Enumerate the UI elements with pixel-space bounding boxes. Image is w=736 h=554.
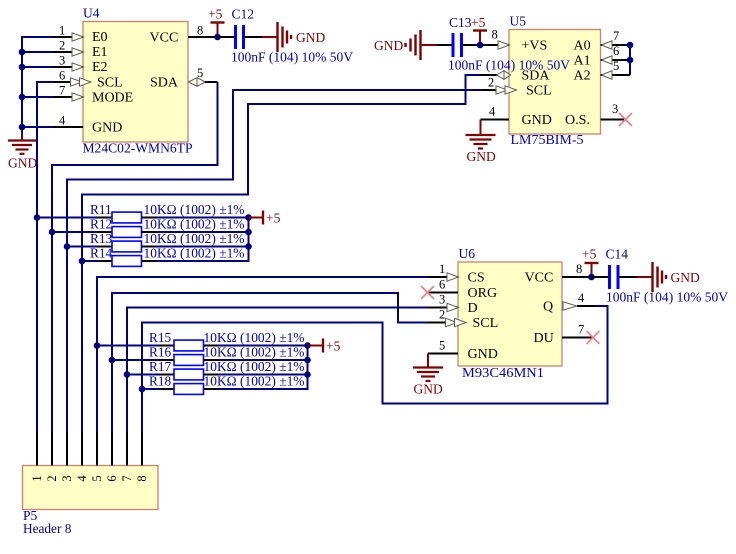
svg-text:3: 3 bbox=[439, 293, 445, 307]
U4 pin 4 GND bbox=[52, 114, 83, 128]
P5 pin 3 bbox=[60, 432, 74, 482]
wire E0 net horizontal bbox=[21, 36, 53, 38]
svg-text:7: 7 bbox=[59, 84, 65, 98]
resistor R11 bbox=[37, 202, 249, 223]
U6 pin 2 SCL bbox=[428, 308, 466, 327]
wire U5 SDA net: pin to bus x=82 bbox=[82, 75, 482, 195]
svg-text:MODE: MODE bbox=[92, 91, 133, 106]
resistor R18 bbox=[142, 374, 308, 395]
svg-text:10KΩ (1002) ±1%: 10KΩ (1002) ±1% bbox=[204, 345, 305, 360]
junction dot x=22 y=97 bbox=[19, 94, 26, 101]
junction dot R12 tie bbox=[245, 229, 252, 236]
svg-text:5: 5 bbox=[439, 339, 445, 353]
svg-text:GND: GND bbox=[374, 38, 403, 53]
power +5 at U5 +VS bbox=[471, 15, 487, 45]
svg-text:8: 8 bbox=[135, 475, 149, 481]
svg-text:GND: GND bbox=[468, 347, 498, 362]
svg-text:R13: R13 bbox=[90, 231, 113, 246]
U6 pin 1 CS bbox=[428, 262, 459, 281]
junction dot R13 tie bbox=[245, 243, 252, 250]
U5 pin 7 A0 bbox=[601, 29, 631, 49]
resistor R17 bbox=[127, 359, 308, 380]
junction dot R17 bus bbox=[124, 371, 131, 378]
svg-text:CS: CS bbox=[468, 271, 485, 286]
svg-text:6: 6 bbox=[59, 69, 65, 83]
svg-text:1: 1 bbox=[59, 24, 65, 38]
svg-text:4: 4 bbox=[489, 105, 496, 119]
svg-text:1: 1 bbox=[439, 262, 445, 276]
svg-text:6: 6 bbox=[613, 44, 619, 58]
svg-text:5: 5 bbox=[613, 59, 619, 73]
svg-text:C13: C13 bbox=[449, 15, 472, 30]
wire U4 SDA vertical x=217.5 bbox=[52, 82, 218, 165]
resistor R16 bbox=[112, 345, 308, 366]
U5 pin 4 GND bbox=[481, 105, 510, 120]
svg-text:GND: GND bbox=[414, 382, 443, 397]
svg-text:A0: A0 bbox=[574, 39, 591, 54]
wire U6 VCC to C14 bbox=[592, 276, 610, 278]
svg-text:U5: U5 bbox=[510, 14, 527, 29]
svg-text:+5: +5 bbox=[471, 15, 486, 30]
junction dot R16 bus bbox=[109, 357, 116, 364]
svg-text:5: 5 bbox=[197, 66, 203, 80]
wire R15-R18 right tie vertical bbox=[307, 345, 309, 391]
junction dot +VS node bbox=[477, 42, 484, 49]
wire U4 left bus vertical x=22 bbox=[21, 36, 23, 134]
junction dot R18 bus bbox=[139, 386, 146, 393]
svg-text:U4: U4 bbox=[83, 6, 100, 21]
power ground C14 right bbox=[653, 262, 700, 292]
svg-text:5: 5 bbox=[90, 475, 104, 481]
power +5 at R15-R18 bbox=[308, 339, 341, 354]
svg-text:GND: GND bbox=[522, 113, 552, 128]
svg-text:R18: R18 bbox=[149, 374, 172, 389]
svg-text:7: 7 bbox=[578, 323, 584, 337]
resistor R15 bbox=[97, 330, 308, 351]
svg-text:10KΩ (1002) ±1%: 10KΩ (1002) ±1% bbox=[144, 231, 245, 246]
junction dot R15 tie bbox=[304, 342, 311, 349]
junction dot R17 tie bbox=[304, 371, 311, 378]
svg-text:Q: Q bbox=[543, 300, 553, 315]
no-connect X at U6 ORG bbox=[421, 286, 434, 299]
power +5 at R11-R14 bbox=[249, 211, 281, 226]
U6 pin 5 GND bbox=[428, 339, 458, 354]
U6 pin 4 Q output bbox=[563, 291, 595, 310]
junction dot x=22 y=52 bbox=[19, 49, 26, 56]
svg-text:VCC: VCC bbox=[525, 271, 554, 286]
wire VCC node to C12 bbox=[218, 36, 236, 38]
svg-text:GND: GND bbox=[8, 156, 37, 171]
svg-text:10KΩ (1002) ±1%: 10KΩ (1002) ±1% bbox=[144, 217, 245, 232]
P5 pin 7 bbox=[120, 432, 134, 482]
svg-text:100nF (104) 10% 50V: 100nF (104) 10% 50V bbox=[606, 290, 728, 305]
no-connect X at U5 O.S. bbox=[619, 113, 632, 126]
svg-text:10KΩ (1002) ±1%: 10KΩ (1002) ±1% bbox=[204, 330, 305, 345]
ground symbol U4 left bbox=[8, 133, 37, 171]
svg-text:E1: E1 bbox=[92, 45, 108, 60]
svg-text:3: 3 bbox=[59, 54, 65, 68]
svg-text:3: 3 bbox=[60, 475, 74, 481]
svg-text:GND: GND bbox=[467, 149, 496, 164]
U6 pin 3 D bbox=[428, 293, 459, 312]
svg-text:C12: C12 bbox=[232, 7, 255, 22]
svg-text:GND: GND bbox=[296, 30, 325, 45]
svg-text:C14: C14 bbox=[606, 247, 629, 262]
junction dot R11 tie bbox=[245, 214, 252, 221]
wire U6 SCL net: bus x=112 with jog bbox=[112, 293, 428, 323]
U5 pin 5 A2 bbox=[601, 59, 631, 79]
U5 pin 8 +VS bbox=[481, 28, 510, 50]
junction dot A0 bbox=[627, 42, 634, 49]
svg-text:100nF (104) 10% 50V: 100nF (104) 10% 50V bbox=[231, 50, 353, 65]
junction dot R16 tie bbox=[304, 357, 311, 364]
power ground C12 right bbox=[278, 22, 326, 52]
U6 pin 7 DU bbox=[562, 323, 592, 338]
svg-text:R11: R11 bbox=[90, 202, 112, 217]
svg-text:M24C02-WMN6TP: M24C02-WMN6TP bbox=[83, 141, 193, 156]
wire U6 D net: bus x=127 to pin bbox=[127, 308, 428, 309]
svg-text:+5: +5 bbox=[208, 7, 223, 22]
svg-text:GND: GND bbox=[92, 121, 122, 136]
IC U6 body bbox=[458, 246, 562, 380]
resistor R14 bbox=[82, 246, 249, 267]
capacitor C12 bbox=[231, 7, 353, 65]
junction dot R13 bus bbox=[64, 243, 71, 250]
svg-text:4: 4 bbox=[578, 291, 585, 305]
wire U6 Q net: bus x=142 long loop bbox=[142, 306, 608, 404]
svg-text:R17: R17 bbox=[149, 359, 172, 374]
junction dot A1 bbox=[627, 57, 634, 64]
wire U4 SCL bus vertical x=37 bbox=[36, 81, 54, 83]
wire GND to C13 bbox=[421, 44, 438, 46]
svg-text:+5: +5 bbox=[326, 339, 341, 354]
svg-text:A1: A1 bbox=[574, 54, 591, 69]
junction dot x=22 y=127 bbox=[19, 124, 26, 131]
U4 pin 3 E2 bbox=[52, 54, 84, 72]
resistor R13 bbox=[67, 231, 249, 252]
svg-text:LM75BIM-5: LM75BIM-5 bbox=[511, 132, 584, 147]
svg-text:7: 7 bbox=[613, 29, 619, 43]
svg-text:6: 6 bbox=[439, 278, 445, 292]
IC U4 body bbox=[83, 6, 193, 156]
svg-text:E0: E0 bbox=[92, 30, 108, 45]
capacitor C14 bbox=[606, 247, 729, 305]
svg-text:100nF (104) 10% 50V: 100nF (104) 10% 50V bbox=[448, 58, 570, 73]
svg-text:1: 1 bbox=[30, 475, 44, 481]
svg-text:A2: A2 bbox=[574, 69, 591, 84]
junction dot R14 bus bbox=[79, 258, 86, 265]
junction dot R15 bus bbox=[94, 342, 101, 349]
ground symbol U5 GND pin bbox=[466, 120, 496, 165]
junction dot VCC/C12 node bbox=[214, 34, 221, 41]
U6 pin 8 VCC bbox=[562, 262, 592, 277]
P5 pin 5 bbox=[90, 432, 104, 482]
svg-text:D: D bbox=[468, 301, 478, 316]
svg-text:8: 8 bbox=[492, 28, 498, 42]
U4 pin 7 MODE bbox=[52, 84, 84, 102]
svg-text:7: 7 bbox=[120, 475, 134, 481]
svg-text:SCL: SCL bbox=[97, 76, 123, 91]
svg-text:+VS: +VS bbox=[522, 39, 548, 54]
svg-text:R14: R14 bbox=[90, 246, 113, 261]
U4 pin 8 VCC bbox=[188, 24, 218, 38]
svg-text:+5: +5 bbox=[582, 247, 597, 262]
U5 pin 6 A1 bbox=[601, 44, 631, 64]
svg-text:10KΩ (1002) ±1%: 10KΩ (1002) ±1% bbox=[204, 359, 305, 374]
capacitor C13 bbox=[448, 15, 570, 73]
junction dot U6 VCC node bbox=[588, 274, 595, 281]
svg-text:ORG: ORG bbox=[468, 286, 498, 301]
wire MODE net horizontal bbox=[22, 96, 53, 98]
wire C13 to U5 +VS bbox=[463, 44, 482, 46]
junction dot R12 bus bbox=[49, 229, 56, 236]
U5 pin 1 SDA bidirectional bbox=[482, 71, 511, 80]
svg-text:10KΩ (1002) ±1%: 10KΩ (1002) ±1% bbox=[204, 374, 305, 389]
U4 pin 1 E0 bbox=[52, 24, 84, 42]
svg-text:M93C46MN1: M93C46MN1 bbox=[462, 365, 544, 380]
connector P5 body bbox=[23, 466, 159, 537]
svg-text:SDA: SDA bbox=[150, 76, 179, 91]
svg-text:3: 3 bbox=[612, 102, 618, 116]
IC U5 body bbox=[509, 14, 601, 148]
svg-text:2: 2 bbox=[45, 475, 59, 481]
wire E1 net horizontal bbox=[22, 51, 53, 53]
junction dot R11 bus bbox=[34, 214, 41, 221]
wire U6 CS net: bus x=97 to pin bbox=[97, 277, 428, 278]
ground symbol U6 GND pin bbox=[413, 354, 443, 397]
P5 pin 4 bbox=[75, 432, 89, 482]
svg-text:GND: GND bbox=[671, 270, 700, 285]
U5 pin 2 SCL bbox=[482, 76, 517, 95]
wire SDA bus vertical x=52 bbox=[51, 164, 53, 433]
wire E2 net horizontal bbox=[22, 66, 53, 68]
svg-text:2: 2 bbox=[439, 308, 445, 322]
U5 pin 3 O.S. bbox=[601, 102, 625, 120]
wire C12 to GND bbox=[245, 36, 263, 38]
wire R11-R14 right tie vertical bbox=[248, 217, 250, 263]
P5 pin 1 bbox=[30, 432, 44, 482]
P5 pin 6 bbox=[105, 432, 119, 482]
junction dot x=22 y=67 bbox=[19, 64, 26, 71]
svg-text:8: 8 bbox=[576, 262, 582, 276]
svg-text:R16: R16 bbox=[149, 345, 172, 360]
svg-text:2: 2 bbox=[488, 76, 494, 90]
svg-text:VCC: VCC bbox=[150, 31, 179, 46]
svg-text:2: 2 bbox=[59, 39, 65, 53]
svg-text:6: 6 bbox=[105, 475, 119, 481]
svg-text:10KΩ (1002) ±1%: 10KΩ (1002) ±1% bbox=[144, 202, 245, 217]
P5 pin 2 bbox=[45, 432, 59, 482]
power ground C13 left bbox=[374, 30, 421, 60]
wire A0-A1-A2 tie vertical bbox=[629, 44, 631, 75]
power +5 at U6 VCC bbox=[582, 247, 599, 278]
svg-text:SCL: SCL bbox=[473, 316, 499, 331]
svg-text:R12: R12 bbox=[90, 217, 112, 232]
svg-text:Header 8: Header 8 bbox=[23, 521, 72, 536]
wire U5 SCL net: pin to bus x=67 bbox=[67, 90, 482, 180]
svg-text:U6: U6 bbox=[459, 246, 476, 261]
no-connect X at U6 DU bbox=[587, 331, 600, 344]
U4 pin 2 E1 bbox=[52, 39, 84, 57]
svg-text:R15: R15 bbox=[149, 330, 172, 345]
svg-text:+5: +5 bbox=[266, 211, 281, 226]
wire U4 GND net horizontal bbox=[22, 126, 53, 128]
resistor R12 bbox=[52, 217, 249, 238]
svg-text:SCL: SCL bbox=[526, 84, 552, 99]
U4 pin 5 SDA bidirectional bbox=[189, 66, 218, 86]
svg-text:DU: DU bbox=[534, 331, 554, 346]
U4 pin 6 SCL bbox=[53, 69, 91, 87]
svg-text:O.S.: O.S. bbox=[565, 113, 590, 128]
power +5 at U4 VCC bbox=[208, 7, 225, 38]
svg-text:4: 4 bbox=[75, 475, 89, 482]
svg-text:E2: E2 bbox=[92, 60, 108, 75]
wire C14 to GND bbox=[619, 276, 637, 278]
svg-text:10KΩ (1002) ±1%: 10KΩ (1002) ±1% bbox=[144, 246, 245, 261]
svg-text:4: 4 bbox=[59, 114, 66, 128]
P5 pin 8 bbox=[135, 432, 149, 482]
U6 pin 6 ORG bbox=[428, 278, 459, 293]
svg-text:8: 8 bbox=[197, 24, 203, 38]
